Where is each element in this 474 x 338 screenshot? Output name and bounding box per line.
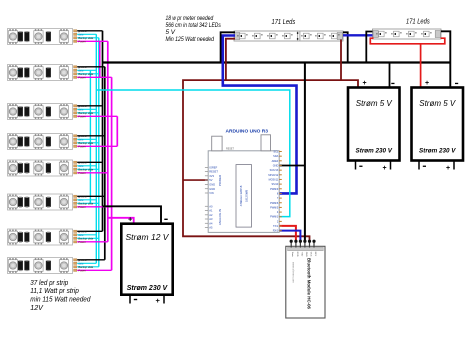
svg-text:SCK/13: SCK/13 xyxy=(270,169,279,172)
wire power link S1-S2 (magenta) xyxy=(99,41,101,77)
svg-text:Power: Power xyxy=(78,171,86,175)
svg-text:+: + xyxy=(425,80,429,87)
svg-text:MOSI/11: MOSI/11 xyxy=(269,178,279,181)
LED strip B (171 Leds) xyxy=(373,29,442,39)
power supply PS3 (Strom 12V) xyxy=(121,224,172,295)
PS1 - terminal label xyxy=(391,83,394,84)
svg-text:SDA: SDA xyxy=(273,155,278,158)
wire S7 ground stub xyxy=(77,230,102,232)
wire strip A right ground (black) xyxy=(343,32,348,62)
wire data strip A to strip B (blue) xyxy=(343,34,373,36)
LED strip S8 xyxy=(8,258,77,274)
svg-text:SCL: SCL xyxy=(273,151,278,154)
svg-text:Min 125 Watt needed: Min 125 Watt needed xyxy=(166,37,215,43)
svg-text:MISO/12: MISO/12 xyxy=(268,174,278,177)
PS1 bottom - label xyxy=(359,166,362,167)
svg-text:+: + xyxy=(383,165,387,172)
arduino U1 body xyxy=(208,151,279,233)
svg-text:PWM/6: PWM/6 xyxy=(270,202,279,205)
S6 connector pin labels xyxy=(78,195,93,210)
wire S8 backup data stub xyxy=(77,266,99,268)
svg-text:Strøm 5 V: Strøm 5 V xyxy=(356,99,393,108)
svg-text:TX/1: TX/1 xyxy=(273,225,279,228)
svg-text:data: data xyxy=(78,138,84,142)
LED strip S3 xyxy=(8,104,77,120)
wire S3 data stub xyxy=(77,108,96,110)
PS3 bottom - stub xyxy=(129,295,131,304)
note top specs line 1 xyxy=(166,16,214,22)
svg-text:171 Leds: 171 Leds xyxy=(272,19,296,26)
wire arduino GND to ground bus and BT GND (black) xyxy=(304,63,306,242)
wire supply2 + to strip B power (red) xyxy=(420,44,422,88)
wire arduino TX1 to BT RXD (red) xyxy=(279,226,296,241)
S7 connector pin labels xyxy=(78,230,93,245)
note bottom line 4 xyxy=(30,303,44,312)
wire strip B left ground (black) xyxy=(366,32,372,63)
note top specs line 4 xyxy=(166,37,215,43)
PS2 bottom + label xyxy=(446,165,450,172)
wire S5 data stub xyxy=(77,165,96,167)
wire S4 backup data stub xyxy=(77,142,99,144)
arduino RESET label xyxy=(226,148,235,151)
svg-text:ATMEGA 328P-B: ATMEGA 328P-B xyxy=(239,185,243,206)
PS2 bottom - stub xyxy=(418,161,420,170)
svg-text:RX/0: RX/0 xyxy=(273,230,279,233)
svg-text:GND: GND xyxy=(209,183,215,187)
PS2 - terminal label xyxy=(455,83,458,84)
wire arduino RX0 to BT TXD (blue) xyxy=(279,231,300,241)
wire S4 ground stub xyxy=(77,135,105,137)
svg-text:A5: A5 xyxy=(209,226,213,230)
wire S5 backup data stub xyxy=(77,168,99,170)
svg-text:+: + xyxy=(156,296,161,305)
svg-text:A4: A4 xyxy=(209,221,213,225)
LED strip S1 xyxy=(8,29,77,45)
svg-text:ANALOG IN: ANALOG IN xyxy=(218,209,222,225)
svg-text:Strøm 230 V: Strøm 230 V xyxy=(419,148,456,155)
wire 5V stub to arduino 5V pin (dark red) xyxy=(183,179,208,181)
svg-text:3V3: 3V3 xyxy=(209,174,214,178)
LED strip S6 xyxy=(8,194,77,210)
wire S3 backup data stub xyxy=(77,112,99,114)
svg-text:www.olimex.com: www.olimex.com xyxy=(292,262,296,283)
PS2 + terminal label xyxy=(425,80,429,87)
wire 12V power bus vertical 2 (magenta) xyxy=(111,77,113,270)
note bottom line 3 xyxy=(30,295,91,304)
bluetooth module url xyxy=(292,262,296,283)
wire backup-data bus vertical (cyan) xyxy=(98,38,100,267)
svg-text:A0: A0 xyxy=(209,204,213,208)
svg-text:ground: ground xyxy=(78,258,87,262)
svg-text:data: data xyxy=(78,164,84,168)
svg-text:RESET: RESET xyxy=(209,170,218,174)
PS2 bottom - label xyxy=(423,166,426,167)
S8 connector pin labels xyxy=(78,258,93,273)
svg-text:12V: 12V xyxy=(30,303,44,312)
svg-text:Strøm 230 V: Strøm 230 V xyxy=(356,148,393,155)
svg-text:Power: Power xyxy=(78,76,86,80)
svg-text:+: + xyxy=(363,80,367,87)
wire S4 data stub xyxy=(77,138,96,140)
svg-text:Strøm 230 V: Strøm 230 V xyxy=(127,285,169,292)
svg-text:Power: Power xyxy=(78,40,86,44)
LED strip S4 xyxy=(8,134,77,150)
wire S4 power stub xyxy=(77,145,117,147)
bluetooth module title xyxy=(307,258,312,310)
wire data chain link (cyan) xyxy=(89,70,91,203)
svg-text:PWM/5: PWM/5 xyxy=(270,206,279,209)
PS1 bottom + stub xyxy=(390,161,392,170)
wire S2 backup data stub xyxy=(77,73,99,75)
svg-text:Backup data: Backup data xyxy=(78,72,93,76)
svg-text:Backup data: Backup data xyxy=(78,36,93,40)
wire power link S3-S4 (magenta) xyxy=(116,116,118,146)
svg-text:GND: GND xyxy=(305,252,307,257)
svg-text:State: State xyxy=(291,252,294,258)
wire power bus to 12V supply + (magenta) xyxy=(108,218,134,224)
svg-text:A1: A1 xyxy=(209,209,213,213)
wire S2 data stub xyxy=(77,69,96,71)
wire strip B right ground to supply2 - (black) xyxy=(441,31,450,87)
bluetooth module pin labels xyxy=(291,252,316,258)
PS3 bottom + stub xyxy=(163,295,165,304)
S5 connector pin labels xyxy=(78,161,93,176)
note bottom line 1 xyxy=(30,278,68,287)
LED strip S5 xyxy=(8,160,77,176)
svg-text:Power: Power xyxy=(78,269,86,273)
wire S7 backup data stub xyxy=(77,237,99,239)
wire S1 backup data stub xyxy=(77,37,99,39)
svg-text:ground: ground xyxy=(78,104,87,108)
arduino POWER section label xyxy=(218,174,222,186)
S3 connector pin labels xyxy=(78,104,93,119)
svg-text:+: + xyxy=(446,165,450,172)
bluetooth module header pins xyxy=(290,240,316,248)
PS3 bottom - label xyxy=(134,299,137,300)
wire S8 ground stub xyxy=(77,259,105,261)
arduino USB connector xyxy=(212,136,222,151)
svg-text:TXD: TXD xyxy=(300,252,302,257)
svg-text:ground: ground xyxy=(78,230,87,234)
S1 connector pin labels xyxy=(78,29,93,44)
arduino power pins (IOREF..VIN) xyxy=(205,166,218,196)
note top specs line 3 xyxy=(166,30,177,36)
wire ground bus vertical (black) xyxy=(102,31,104,232)
S2 connector pin labels xyxy=(78,65,93,80)
arduino analog pins A0-A5 xyxy=(205,204,213,229)
power supply PS2 (Strom 5V) xyxy=(412,88,464,161)
svg-text:A3: A3 xyxy=(209,217,213,221)
svg-text:RESET: RESET xyxy=(226,148,235,151)
svg-text:566 cm in total 342 LEDs: 566 cm in total 342 LEDs xyxy=(166,23,221,29)
wire S5 ground stub xyxy=(77,161,102,163)
wire S6 power stub xyxy=(77,206,111,208)
note top specs line 2 xyxy=(166,23,221,29)
wire ground bus vertical 2 (black) xyxy=(104,67,106,260)
svg-text:VIN: VIN xyxy=(209,191,213,195)
svg-text:Backup data: Backup data xyxy=(78,111,93,115)
svg-text:Strøm 12 V: Strøm 12 V xyxy=(126,232,170,242)
wire S2 ground stub xyxy=(77,66,105,68)
LED strip S2 xyxy=(8,65,77,81)
S4 connector pin labels xyxy=(78,134,93,149)
wire S6 ground stub xyxy=(77,195,105,197)
svg-text:+: + xyxy=(128,215,133,224)
wire S7 power stub xyxy=(77,241,108,243)
svg-text:ground: ground xyxy=(78,195,87,199)
bluetooth module HC-06 board xyxy=(286,246,325,318)
wire ground bus horizontal (black) xyxy=(103,61,451,63)
wire S1 power stub xyxy=(77,40,108,42)
svg-text:1812SWB: 1812SWB xyxy=(244,190,248,202)
svg-text:A2: A2 xyxy=(209,213,213,217)
svg-text:18 w pr meter needed: 18 w pr meter needed xyxy=(166,16,214,22)
LED strip A (171 Leds, two segments) xyxy=(234,31,343,41)
PS2 bottom + stub xyxy=(453,161,455,170)
PS1 bottom + label xyxy=(383,165,387,172)
svg-text:data: data xyxy=(78,69,84,73)
PS1 + terminal label xyxy=(363,80,367,87)
svg-text:data: data xyxy=(78,108,84,112)
svg-text:Backup data: Backup data xyxy=(78,141,93,145)
svg-text:171 Leds: 171 Leds xyxy=(406,19,430,26)
svg-text:VCC: VCC xyxy=(310,252,312,257)
svg-text:ground: ground xyxy=(78,65,87,69)
wire strip A left power (dark red) xyxy=(226,39,235,80)
wire S6 data stub xyxy=(77,199,96,201)
svg-text:data: data xyxy=(78,233,84,237)
svg-text:ground: ground xyxy=(78,161,87,165)
arduino digital pins (SCL..RX0) xyxy=(268,151,281,233)
PS3 bottom + label xyxy=(156,296,161,305)
svg-text:5V: 5V xyxy=(209,178,212,182)
wire S8 power stub xyxy=(77,269,111,271)
arduino power jack xyxy=(261,135,271,151)
svg-text:data: data xyxy=(78,262,84,266)
wire arduino GND stub (black) xyxy=(279,165,305,167)
label 171 Leds (strip A) xyxy=(272,19,296,26)
wire data bus vertical (cyan) xyxy=(95,34,97,263)
svg-text:AREF: AREF xyxy=(272,160,279,163)
svg-text:Backup data: Backup data xyxy=(78,168,93,172)
wire strip A left ground (black) xyxy=(221,32,235,62)
PS1 bottom - stub xyxy=(355,161,357,170)
svg-text:GND: GND xyxy=(273,164,279,167)
wire data arduino pin8 to strip A (blue) xyxy=(223,36,297,194)
svg-text:ARDUINO UNO R3: ARDUINO UNO R3 xyxy=(226,129,269,134)
wire 5V bus (dark red) supply1+ to arduino/BT xyxy=(183,80,358,241)
wire S3 power stub xyxy=(77,115,117,117)
svg-text:Bluetooth Module HC-06: Bluetooth Module HC-06 xyxy=(307,258,312,310)
wire supply1 - to ground bus (black) xyxy=(389,63,391,88)
arduino ATMEGA chip xyxy=(236,165,252,228)
svg-text:Power: Power xyxy=(78,115,86,119)
power supply PS1 (Strom 5V) xyxy=(348,88,400,161)
LED strip S7 xyxy=(8,229,77,245)
svg-text:Backup data: Backup data xyxy=(78,237,93,241)
wire S6 backup data stub xyxy=(77,202,99,204)
svg-text:5 V: 5 V xyxy=(166,30,177,36)
svg-text:Power: Power xyxy=(78,205,86,209)
wire S2 power stub xyxy=(77,76,111,78)
wire S7 data stub xyxy=(77,234,96,236)
svg-text:SS/10: SS/10 xyxy=(271,183,278,186)
label 171 Leds (strip B) xyxy=(406,19,430,26)
PS3 - terminal label xyxy=(164,219,167,220)
svg-text:POWER: POWER xyxy=(218,174,222,186)
svg-text:KEY: KEY xyxy=(314,252,316,257)
svg-text:Power: Power xyxy=(78,145,86,149)
wire S1 data stub xyxy=(77,33,96,35)
svg-text:ground: ground xyxy=(78,134,87,138)
svg-text:Backup data: Backup data xyxy=(78,265,93,269)
svg-text:Backup data: Backup data xyxy=(78,202,93,206)
wire strip B power loop (red) xyxy=(370,38,445,44)
svg-text:PWM/3: PWM/3 xyxy=(270,216,279,219)
svg-text:RXD: RXD xyxy=(296,252,298,257)
svg-text:data: data xyxy=(78,198,84,202)
wire S5 power stub xyxy=(77,172,108,174)
wire S8 data stub xyxy=(77,262,96,264)
wire S1 ground stub xyxy=(77,30,102,32)
svg-text:PWM/9: PWM/9 xyxy=(270,188,279,191)
svg-text:Power: Power xyxy=(78,240,86,244)
wire S3 ground stub xyxy=(77,105,102,107)
note bottom line 2 xyxy=(30,286,79,295)
svg-text:IOREF: IOREF xyxy=(209,166,217,170)
arduino U1 label xyxy=(226,129,269,134)
svg-text:data: data xyxy=(78,33,84,37)
PS3 + terminal label xyxy=(128,215,133,224)
wire data arduino pin3 to left strips (cyan) xyxy=(96,90,289,217)
wire strip A right power (dark red) xyxy=(340,40,342,81)
svg-text:Strøm 5 V: Strøm 5 V xyxy=(419,99,456,108)
svg-text:ground: ground xyxy=(78,29,87,33)
svg-text:GND: GND xyxy=(209,187,215,191)
wire 12V power bus vertical (magenta) xyxy=(107,41,109,242)
arduino ANALOG IN section label xyxy=(218,209,222,225)
wire ground bus to 12V supply - (black) xyxy=(103,206,162,223)
